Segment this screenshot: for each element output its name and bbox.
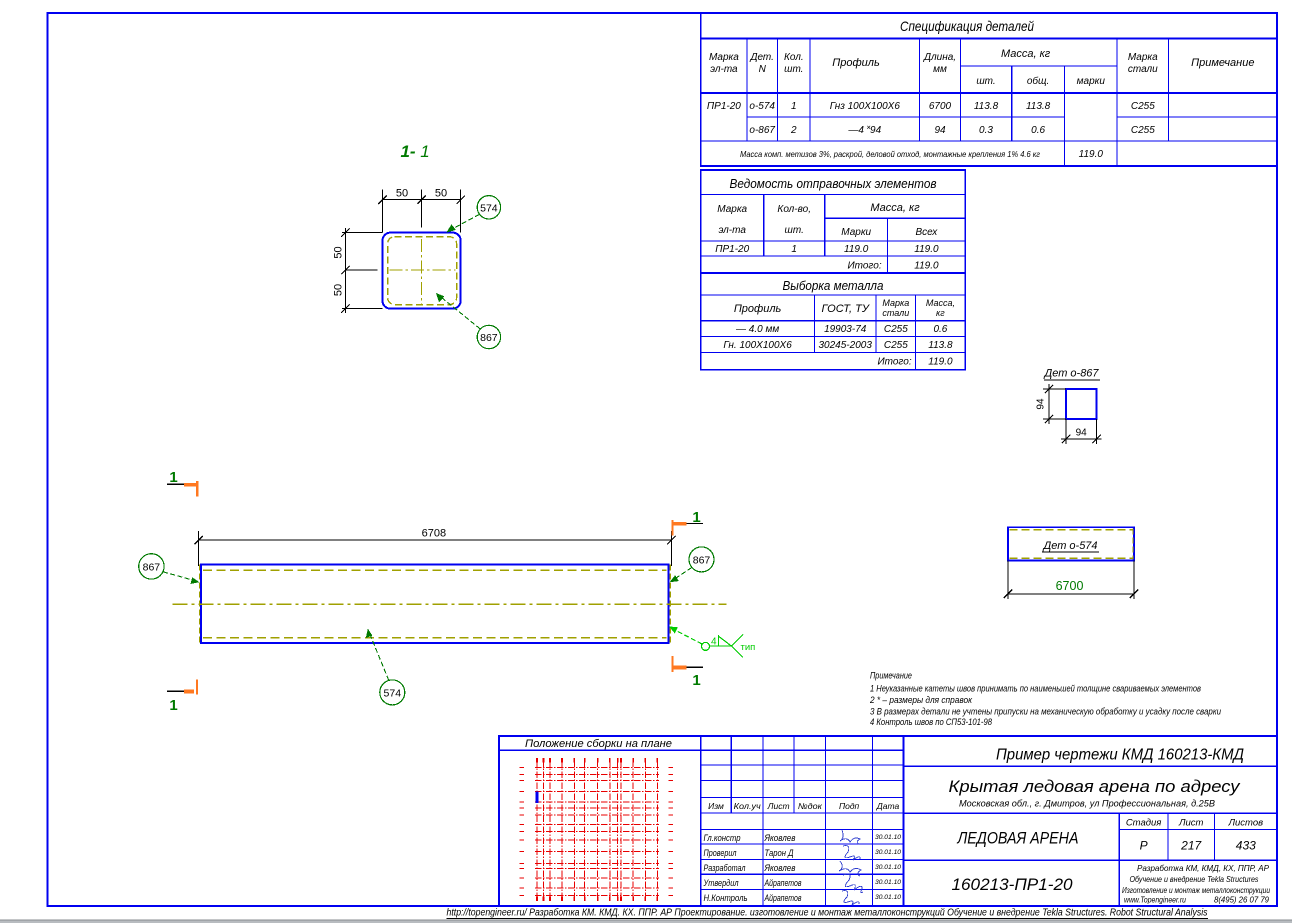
svg-text:1: 1 [169, 469, 177, 486]
svg-text:шт.: шт. [784, 64, 803, 75]
svg-text:1: 1 [420, 142, 429, 161]
svg-text:1: 1 [169, 697, 177, 714]
svg-text:Дет.: Дет. [749, 52, 774, 63]
svg-text:—4 ˟94: —4 ˟94 [847, 124, 881, 136]
section 1-1: top dimension 50+50 [382, 189, 384, 232]
section mark 1 bottom-right [677, 666, 703, 668]
svg-text:160213-ПР1-20: 160213-ПР1-20 [952, 876, 1074, 894]
svg-text:8(495) 26 07 79: 8(495) 26 07 79 [1214, 896, 1269, 905]
svg-text:50: 50 [396, 188, 408, 200]
svg-text:тип: тип [741, 642, 756, 653]
title block: Положение сборки на плане box [499, 749, 701, 751]
beam: dimension 6708 [198, 531, 200, 566]
svg-text:217: 217 [1180, 839, 1202, 853]
svg-text:о-867: о-867 [749, 125, 775, 136]
svg-text:N: N [759, 64, 767, 75]
section 1-1: left dimension 50+50 [342, 232, 383, 234]
svg-text:— 4.0 мм: — 4.0 мм [735, 324, 779, 335]
svg-text:ЛЕДОВАЯ АРЕНА: ЛЕДОВАЯ АРЕНА [957, 830, 1079, 848]
svg-text:С255: С255 [1131, 101, 1155, 112]
svg-text:0.6: 0.6 [933, 324, 947, 335]
svg-text:кг: кг [936, 308, 945, 318]
svg-text:119.0: 119.0 [928, 357, 953, 368]
svg-text:Кол-во,: Кол-во, [777, 204, 811, 215]
svg-text:Лист: Лист [767, 801, 790, 811]
svg-text:1: 1 [791, 101, 797, 112]
svg-text:Примечание: Примечание [870, 671, 912, 681]
svg-text:Всех: Всех [916, 227, 939, 238]
detail drawing Дет о-574 [1008, 527, 1134, 560]
svg-text:94: 94 [1076, 428, 1088, 439]
svg-text:30.01.10: 30.01.10 [875, 895, 902, 901]
svg-text:119.0: 119.0 [844, 244, 869, 255]
svg-text:3 В размерах детали не учтены: 3 В размерах детали не учтены припуски н… [870, 707, 1221, 717]
title block right: document name rows [904, 765, 1278, 767]
svg-text:мм: мм [933, 64, 947, 75]
svg-text:С255: С255 [884, 324, 908, 335]
svg-text:119.0: 119.0 [914, 261, 939, 272]
beam: inner walls dashed [203, 569, 667, 571]
svg-text:Изм: Изм [708, 801, 724, 811]
svg-text:С255: С255 [1131, 125, 1155, 136]
svg-text:30245-2003: 30245-2003 [819, 340, 873, 351]
svg-text:Айрапетов: Айрапетов [764, 893, 802, 903]
svg-text:о-574: о-574 [749, 101, 775, 112]
svg-text:Р: Р [1140, 839, 1148, 853]
table: Спецификация деталей [701, 13, 1277, 166]
assembly position: blue highlighted member [536, 792, 539, 803]
svg-text:http://topengineer.ru/ Разраб: http://topengineer.ru/ Разработка КМ. КМ… [447, 907, 1208, 919]
svg-text:Итого:: Итого: [878, 357, 912, 368]
svg-text:1: 1 [791, 244, 797, 255]
signatures (blue scribbles) [839, 830, 863, 905]
svg-text:50: 50 [333, 246, 345, 258]
svg-text:Утвердил: Утвердил [703, 878, 739, 888]
svg-text:ГОСТ, ТУ: ГОСТ, ТУ [822, 303, 870, 315]
svg-text:Стадия: Стадия [1126, 818, 1162, 829]
title block frame [499, 736, 1277, 906]
svg-text:30.01.10: 30.01.10 [875, 880, 902, 886]
svg-text:Дата: Дата [876, 801, 900, 811]
svg-text:Масса,: Масса, [926, 298, 955, 308]
svg-text:Масса комп. метизов 3%, раскро: Масса комп. метизов 3%, раскрой, деловой… [740, 150, 1040, 159]
svg-text:0.3: 0.3 [979, 125, 993, 136]
section 1-1: centerlines [390, 269, 456, 271]
det o-867: left dimension 94 [1043, 388, 1066, 390]
svg-text:30.01.10: 30.01.10 [875, 850, 902, 856]
svg-text:Марки: Марки [841, 227, 871, 238]
svg-text:общ.: общ. [1027, 75, 1049, 87]
svg-text:1 Неуказанные катеты швов при: 1 Неуказанные катеты швов принимать по н… [870, 684, 1201, 694]
section mark 1 top-right [678, 522, 703, 524]
svg-text:0.6: 0.6 [1031, 125, 1045, 136]
svg-text:Масса, кг: Масса, кг [1001, 48, 1051, 60]
svg-text:Марка: Марка [882, 298, 909, 308]
svg-text:стали: стали [882, 308, 909, 318]
section 1-1: tube outline (det 574) [383, 233, 461, 309]
table: Ведомость отправочных элементов [701, 170, 965, 273]
svg-text:Ведомость отправочных элементо: Ведомость отправочных элементов [730, 176, 937, 191]
svg-text:Разработка КМ, КМД, КХ, ППР, А: Разработка КМ, КМД, КХ, ППР, АР [1137, 864, 1270, 873]
svg-text:марки: марки [1077, 76, 1106, 87]
svg-text:4 Контроль швов по СП53-101-9: 4 Контроль швов по СП53-101-98 [870, 717, 992, 727]
svg-text:Примечание: Примечание [1191, 57, 1254, 69]
svg-text:94: 94 [934, 125, 946, 136]
svg-text:эл-та: эл-та [718, 225, 746, 236]
svg-text:Итого:: Итого: [848, 261, 882, 272]
beam: tube outline elevation [201, 565, 669, 644]
marker circle 574 (section) [477, 196, 500, 219]
assembly position plan: red grid [520, 758, 674, 901]
svg-text:Лист: Лист [1178, 818, 1204, 829]
svg-text:Пример чертежи КМД 160213-КМД: Пример чертежи КМД 160213-КМД [996, 747, 1244, 764]
svg-text:Кол.: Кол. [784, 52, 804, 63]
section mark 1 bottom-left [167, 690, 194, 692]
svg-text:Московская обл., г. Дмитров, у: Московская обл., г. Дмитров, ул Професси… [959, 799, 1216, 810]
svg-text:Положение сборки на плане: Положение сборки на плане [525, 738, 672, 750]
svg-text:эл-та: эл-та [710, 64, 738, 75]
svg-text:6708: 6708 [422, 527, 446, 539]
svg-text:1: 1 [692, 509, 700, 526]
svg-text:Проверил: Проверил [704, 848, 737, 858]
svg-text:4: 4 [711, 637, 717, 648]
svg-text:433: 433 [1236, 839, 1256, 853]
svg-text:Н.Контроль: Н.Контроль [704, 893, 748, 903]
svg-text:Спецификация деталей: Спецификация деталей [900, 18, 1034, 34]
svg-text:1: 1 [692, 672, 700, 689]
section mark 1 top-left [167, 483, 193, 485]
svg-text:Дет о-574: Дет о-574 [1041, 540, 1097, 552]
svg-text:Кол.уч: Кол.уч [734, 801, 762, 811]
marker circle 574 below beam [380, 680, 405, 705]
bottom gray bar [0, 920, 1292, 923]
svg-text:867: 867 [143, 562, 161, 574]
svg-text:Обучение и внедрение Tekla St: Обучение и внедрение Tekla Structures [1130, 875, 1259, 884]
section 1-1: inner wall dashed [388, 237, 457, 305]
svg-text:119.0: 119.0 [1079, 149, 1104, 160]
svg-text:94: 94 [1036, 398, 1047, 410]
svg-text:1-: 1- [400, 142, 415, 161]
svg-text:Листов: Листов [1227, 818, 1263, 829]
svg-text:Марка: Марка [709, 52, 739, 63]
svg-text:Гн. 100X100X6: Гн. 100X100X6 [723, 340, 792, 351]
svg-text:50: 50 [435, 188, 447, 200]
svg-text:Крытая ледовая арена по адресу: Крытая ледовая арена по адресу [949, 778, 1242, 796]
beam: hidden end plate left [198, 565, 200, 644]
svg-text:Гнз 100X100X6: Гнз 100X100X6 [830, 101, 901, 112]
svg-text:Айрапетов: Айрапетов [764, 878, 802, 888]
svg-text:ПР1-20: ПР1-20 [707, 101, 741, 112]
beam: hidden end plate right [669, 565, 671, 644]
svg-text:2 * – размеры для справок: 2 * – размеры для справок [869, 695, 973, 705]
det o-867: bottom dimension 94 [1065, 419, 1067, 444]
svg-text:6700: 6700 [929, 101, 952, 112]
marker circle 867 right of beam [689, 547, 714, 572]
svg-text:867: 867 [480, 332, 498, 344]
svg-text:113.8: 113.8 [1026, 101, 1051, 112]
svg-text:119.0: 119.0 [914, 244, 939, 255]
svg-text:Профиль: Профиль [734, 303, 782, 315]
svg-text:№док: №док [798, 801, 823, 811]
svg-text:867: 867 [693, 554, 711, 566]
svg-text:Марка: Марка [1128, 52, 1158, 63]
svg-text:Гл.констр: Гл.констр [704, 833, 741, 843]
svg-text:Яковлев: Яковлев [764, 863, 796, 873]
svg-text:50: 50 [333, 284, 345, 296]
svg-text:19903-74: 19903-74 [824, 324, 867, 335]
svg-text:Подп: Подп [839, 801, 860, 811]
svg-text:стали: стали [1128, 64, 1158, 75]
svg-text:шт.: шт. [785, 225, 804, 236]
svg-text:www.Topengineer.ru: www.Topengineer.ru [1124, 896, 1186, 905]
svg-text:113.8: 113.8 [928, 340, 953, 351]
svg-text:Профиль: Профиль [832, 57, 880, 69]
svg-text:574: 574 [480, 202, 498, 214]
svg-text:113.8: 113.8 [974, 101, 999, 112]
svg-text:Яковлев: Яковлев [764, 833, 796, 843]
svg-text:30.01.10: 30.01.10 [875, 835, 902, 841]
table: Выборка металла [701, 273, 965, 370]
svg-text:ПР1-20: ПР1-20 [715, 244, 749, 255]
svg-text:6700: 6700 [1056, 579, 1084, 593]
svg-text:Выборка металла: Выборка металла [783, 278, 884, 293]
svg-text:2: 2 [790, 125, 797, 136]
svg-text:С255: С255 [884, 340, 908, 351]
svg-text:шт.: шт. [976, 76, 995, 87]
beam: centerline [173, 603, 727, 605]
svg-text:Тарон Д: Тарон Д [765, 848, 795, 858]
svg-text:Изготовление и монтаж металлок: Изготовление и монтаж металлоконструкции [1122, 886, 1270, 895]
svg-text:574: 574 [384, 687, 402, 699]
svg-text:Марка: Марка [717, 204, 747, 215]
title block: revision table columns [701, 749, 904, 751]
svg-text:30.01.10: 30.01.10 [875, 865, 902, 871]
weld symbol (typical fillet 4) [671, 628, 703, 645]
svg-text:Длина,: Длина, [923, 52, 956, 63]
marker circle 867 left of beam [139, 554, 164, 579]
det o-574: dimension 6700 [1007, 561, 1009, 600]
svg-text:Дет о-867: Дет о-867 [1042, 368, 1099, 380]
marker circle 867 (section) [477, 325, 500, 348]
svg-text:Разработал: Разработал [704, 863, 746, 873]
svg-text:Масса, кг: Масса, кг [870, 202, 920, 214]
